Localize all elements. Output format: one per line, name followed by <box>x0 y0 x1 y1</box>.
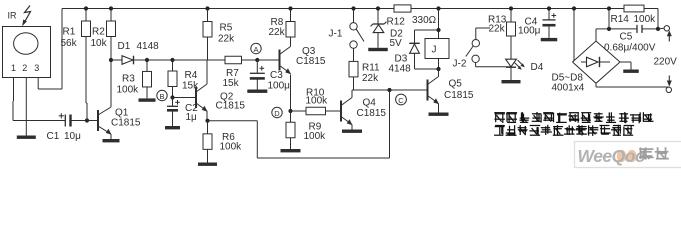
svg-text:R3: R3 <box>122 74 135 85</box>
svg-text:100k: 100k <box>117 85 140 96</box>
svg-text:100μ: 100μ <box>518 26 541 37</box>
svg-text:C1815: C1815 <box>111 118 141 129</box>
svg-text:3: 3 <box>34 63 39 73</box>
svg-text:220V: 220V <box>654 57 678 68</box>
svg-text:100k: 100k <box>634 14 657 25</box>
svg-text:C: C <box>398 96 404 105</box>
svg-text:15k: 15k <box>223 78 240 89</box>
svg-text:0.68μ/400V: 0.68μ/400V <box>604 43 656 54</box>
svg-text:R11: R11 <box>362 63 380 74</box>
svg-text:C1815: C1815 <box>357 108 387 119</box>
svg-text:WeeQoo: WeeQoo <box>578 146 646 166</box>
svg-text:C1815: C1815 <box>296 56 326 67</box>
svg-text:C3: C3 <box>270 70 283 81</box>
svg-text:1: 1 <box>11 63 16 73</box>
svg-text:100μ: 100μ <box>268 81 291 92</box>
svg-text:Q4: Q4 <box>363 98 377 109</box>
svg-text:2: 2 <box>22 63 27 73</box>
svg-text:4001x4: 4001x4 <box>552 83 585 94</box>
svg-text:C1815: C1815 <box>216 101 246 112</box>
svg-text:10k: 10k <box>91 38 108 49</box>
svg-text:4148: 4148 <box>137 41 160 52</box>
svg-text:22k: 22k <box>362 73 379 84</box>
svg-text:5V: 5V <box>390 38 403 49</box>
svg-text:C1: C1 <box>47 131 60 142</box>
svg-text:R5: R5 <box>220 23 233 34</box>
svg-text:100k: 100k <box>306 96 329 107</box>
svg-text:100k: 100k <box>220 142 243 153</box>
svg-text:R4: R4 <box>185 70 198 81</box>
svg-text:R14: R14 <box>611 14 630 25</box>
svg-text:J: J <box>432 45 437 56</box>
svg-text:22k: 22k <box>218 34 235 45</box>
svg-text:B: B <box>159 92 164 101</box>
svg-text:R12: R12 <box>387 17 406 28</box>
svg-text:J-2: J-2 <box>453 59 467 70</box>
svg-text:A: A <box>253 45 258 54</box>
svg-text:D4: D4 <box>531 62 544 73</box>
svg-text:R1: R1 <box>63 27 76 38</box>
svg-text:R2: R2 <box>92 27 105 38</box>
svg-text:J-1: J-1 <box>329 29 343 40</box>
svg-text:Q5: Q5 <box>449 79 463 90</box>
svg-text:C1815: C1815 <box>444 90 474 101</box>
svg-text:D: D <box>274 109 280 118</box>
svg-text:22k: 22k <box>489 24 506 35</box>
svg-text:330Ω: 330Ω <box>412 15 437 26</box>
svg-text:56k: 56k <box>61 38 78 49</box>
svg-text:10μ: 10μ <box>64 131 81 142</box>
svg-text:22k: 22k <box>269 27 286 38</box>
svg-text:100k: 100k <box>304 131 327 142</box>
svg-text:C5: C5 <box>620 32 633 43</box>
svg-text:IR: IR <box>8 11 18 21</box>
svg-text:D1: D1 <box>118 41 131 52</box>
svg-text:4148: 4148 <box>389 64 412 75</box>
svg-text:1μ: 1μ <box>186 112 198 123</box>
